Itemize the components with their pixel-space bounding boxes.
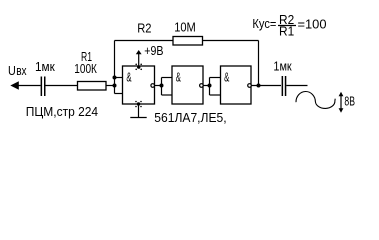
node junction dot: [113, 84, 117, 88]
power pin +9В: [138, 51, 140, 66]
svg-text:вх: вх: [16, 63, 27, 78]
ground pin: [138, 104, 140, 117]
wire feedback top: [115, 40, 174, 42]
wire: [106, 85, 115, 87]
wire input bar of U1: [114, 41, 116, 94]
svg-text:R1: R1: [279, 24, 294, 39]
svg-text:U: U: [8, 63, 16, 78]
svg-text:Кус=: Кус=: [252, 16, 276, 31]
gate U1 (561ЛА7 NAND): [123, 66, 155, 104]
formula Кус=R2/R1=100: [252, 12, 326, 39]
wire feedback right vertical: [258, 41, 260, 86]
output bubble U1: [151, 84, 155, 88]
wire: [18, 85, 41, 87]
svg-text:ПЦМ,стр 224: ПЦМ,стр 224: [26, 104, 98, 119]
resistor R1: [78, 82, 107, 91]
node junction dot: [208, 84, 212, 88]
pin mark top: [135, 64, 142, 71]
wire input bar of U3: [209, 78, 211, 96]
sine wave output symbol: [296, 91, 335, 108]
ground: [130, 117, 146, 119]
capacitor C1 1мк: [41, 77, 43, 97]
wire: [286, 85, 307, 87]
output bubble U2: [200, 84, 204, 88]
svg-text:8В: 8В: [344, 94, 355, 109]
wire input bar of U2: [161, 78, 163, 96]
svg-text:1мк: 1мк: [273, 59, 292, 74]
svg-text:R2: R2: [137, 21, 151, 36]
pin mark bottom: [135, 101, 142, 108]
svg-text:=100: =100: [298, 16, 327, 31]
svg-text:&: &: [126, 70, 131, 85]
wire: [203, 85, 210, 87]
node junction dot: [160, 84, 164, 88]
capacitor C2 1мк: [282, 76, 284, 96]
svg-text:561ЛА7,ЛЕ5,: 561ЛА7,ЛЕ5,: [154, 110, 226, 125]
wire: [155, 85, 162, 87]
svg-text:+9В: +9В: [144, 44, 163, 58]
wire output: [251, 85, 281, 87]
svg-text:&: &: [176, 70, 181, 85]
node output junction dot: [257, 84, 261, 88]
svg-text:1мк: 1мк: [35, 59, 55, 74]
node Uвх input arrow: [10, 81, 18, 89]
wire: [46, 85, 78, 87]
output bubble U3: [248, 84, 252, 88]
node junction dot: [113, 76, 117, 80]
resistor R2: [173, 37, 203, 46]
svg-text:10М: 10М: [174, 19, 196, 34]
8В amplitude arrow: [340, 94, 342, 112]
svg-text:100К: 100К: [74, 61, 97, 76]
gate U2: [172, 66, 203, 104]
wire: [203, 40, 259, 42]
svg-text:&: &: [224, 70, 229, 85]
gate U3: [221, 66, 252, 104]
